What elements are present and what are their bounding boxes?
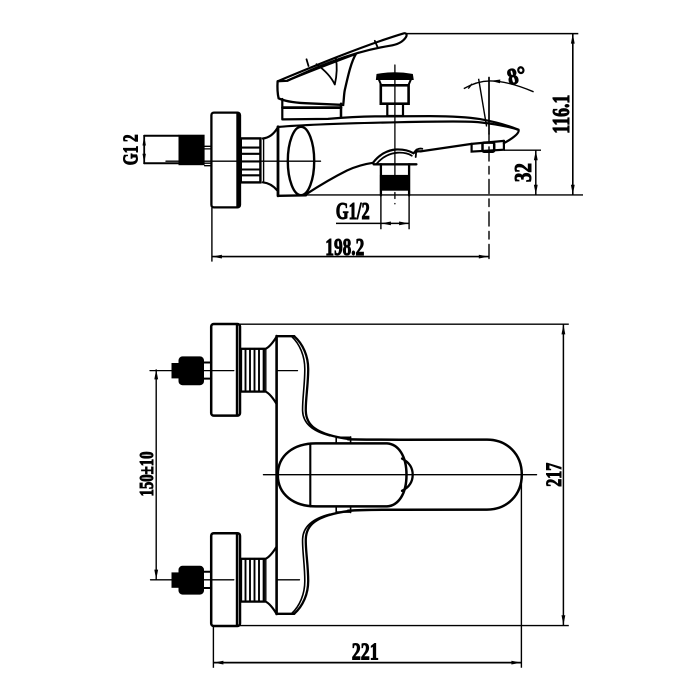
lever web curve — [317, 58, 337, 85]
wall plate (escutcheon, side view) — [211, 113, 240, 208]
lower threaded nipple — [241, 559, 264, 602]
dim 217 line — [562, 324, 564, 625]
8 deg arc arrowhead — [491, 80, 501, 84]
spout top near edge (line B) — [278, 121, 518, 129]
upper threaded nipple — [241, 349, 264, 392]
eccentric connector (black block) — [179, 135, 205, 166]
dim 221 left extension — [212, 627, 214, 668]
dim 116.1 top extension line — [407, 33, 579, 35]
handle cross line — [309, 443, 311, 506]
upper plate inner right edge — [236, 325, 238, 415]
dim 221 right extension — [520, 476, 522, 668]
lower knob left nub — [172, 572, 180, 587]
body back face (bold vertical, plan) — [275, 336, 278, 614]
handle edge ticks upper — [336, 437, 350, 444]
upper wing S-curve inner — [292, 336, 330, 435]
spout underside from saddle to outlet — [421, 141, 505, 152]
body bottom edge — [279, 194, 307, 197]
spout outlet box — [472, 141, 504, 152]
pipe end edge / diameter dimension line — [143, 136, 145, 164]
saddle right hook — [414, 149, 423, 154]
svg-text:32: 32 — [511, 163, 537, 182]
upper wing S-curve outer — [294, 336, 350, 439]
lower black knob — [179, 566, 205, 595]
lower wing S-curve inner — [292, 514, 330, 613]
dim G1/2 line with outward arrows — [381, 222, 409, 224]
aerator rectangle — [483, 143, 495, 152]
lower knob stem — [204, 572, 211, 588]
svg-text:116.1: 116.1 — [549, 95, 575, 134]
handle dome — [277, 54, 356, 105]
dim 32 arrows — [534, 150, 538, 160]
handle edge ticks lower — [336, 506, 350, 512]
dim 198.2 arrows — [212, 255, 222, 259]
upper knob stem — [204, 363, 211, 379]
diverter saddle inner curve — [377, 150, 417, 164]
plan main centerline — [264, 474, 537, 476]
dim 150 line — [155, 369, 157, 579]
lower plate inner right edge — [236, 534, 238, 626]
barrel outline (body + spout, plan) — [348, 439, 522, 511]
8 deg slant reference line — [479, 79, 487, 127]
dim 116.1 arrows — [571, 34, 575, 44]
diverter knob taper — [379, 79, 411, 85]
dim 32 line — [535, 150, 537, 195]
body axis centerline (horizontal) — [166, 160, 321, 162]
svg-text:221: 221 — [352, 639, 379, 665]
dim 32 extension line — [504, 149, 541, 151]
handle stadium (lever from top) — [278, 443, 407, 506]
upper connector centerline — [150, 370, 298, 372]
nut face edge — [263, 139, 265, 183]
handle skirt left edge — [281, 99, 283, 119]
8 deg dimension arc — [464, 81, 534, 92]
diverter saddle outer curve — [373, 149, 421, 162]
body underside curve — [306, 163, 373, 195]
lower connector centerline — [151, 579, 300, 581]
dim 198.2 left extension — [211, 208, 213, 262]
diverter axis centerline (vertical) — [394, 65, 396, 188]
diverter knob stem — [387, 104, 403, 117]
svg-text:G1 2: G1 2 — [119, 134, 143, 165]
body front face (bold vertical) — [277, 127, 280, 196]
hose connector sides — [381, 164, 409, 195]
flare from nut to body — [263, 128, 278, 190]
lower flare to body — [264, 547, 277, 614]
striped coupling nut (side view) — [241, 138, 261, 182]
lower wing S-curve outer — [294, 511, 350, 614]
svg-text:8°: 8° — [505, 61, 529, 90]
spout top far edge (silhouette A) — [283, 116, 519, 130]
upper flare to body — [264, 337, 277, 404]
dim G1 2 pipe arrows — [143, 136, 146, 146]
supply pipe G1/2 (side view) — [144, 136, 178, 164]
dim 217 bottom extension — [240, 625, 569, 627]
lower wing bottom edge — [277, 613, 295, 615]
wall plate thick right edge — [236, 114, 239, 207]
G1/2 leader underline — [336, 222, 381, 224]
dim 217 arrows — [562, 324, 566, 334]
upper knob left nub — [172, 363, 180, 378]
upper wing top edge — [277, 335, 295, 337]
hose connector black block — [380, 175, 410, 191]
spout tip curl and underside to outlet — [504, 130, 519, 143]
8 deg arc left tick — [468, 84, 472, 89]
handle skirt right edge — [340, 104, 343, 117]
diverter knob cylinder — [381, 85, 409, 103]
svg-text:G1/2: G1/2 — [336, 199, 370, 225]
dim 221 line — [213, 662, 521, 664]
dim 116.1 line — [572, 34, 574, 195]
dim G1/2 extension lines — [381, 196, 409, 229]
upper wall plate (plan) — [211, 324, 240, 416]
lower flare face edge — [265, 559, 267, 601]
lower wall plate (plan) — [211, 533, 240, 626]
dim 221 arrows — [213, 661, 223, 665]
handle lever blade — [278, 33, 407, 81]
upper black knob — [179, 356, 205, 385]
svg-text:198.2: 198.2 — [325, 235, 364, 261]
outlet axis centerline (vertical) — [488, 78, 490, 135]
hose connector flange line — [374, 163, 417, 165]
svg-text:217: 217 — [541, 463, 566, 487]
dim 217 top extension — [240, 323, 569, 325]
svg-text:150±10: 150±10 — [136, 452, 158, 497]
handle tip bump arc — [402, 459, 413, 491]
dim 198.2 line — [212, 256, 489, 258]
dim 150 arrows — [154, 369, 158, 379]
body cartridge ellipse — [288, 127, 314, 195]
pipe stubs between eccentric and plate — [205, 146, 212, 165]
diverter knob black cap — [377, 73, 413, 79]
handle skirt bold top band — [283, 106, 342, 109]
shared bottom extension line (116.1 / 32) — [307, 194, 584, 196]
upper flare face edge — [265, 349, 267, 391]
blade tick marks — [307, 41, 378, 66]
